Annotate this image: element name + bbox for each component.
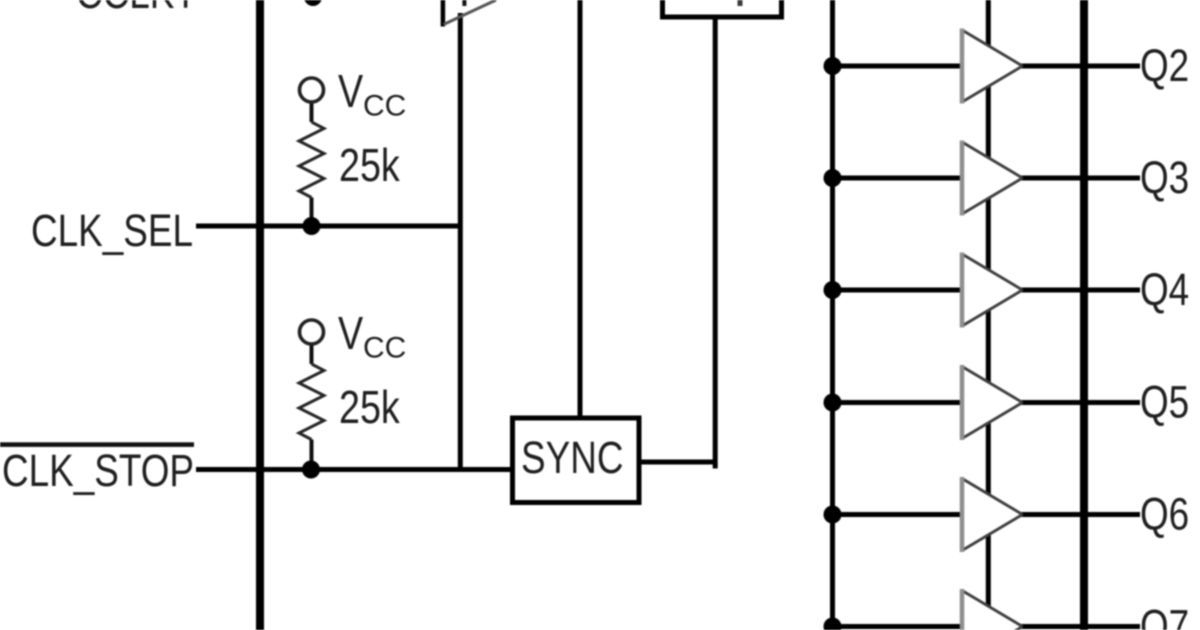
node: bus dot Q3: [824, 169, 842, 187]
buffer Q2: [962, 29, 1023, 104]
svg-text:Q3: Q3: [1140, 153, 1189, 203]
buffer Q5: [962, 365, 1023, 440]
wire: stub above mux slant at top edge: [462, 0, 466, 6]
label VCC (lower): [338, 307, 406, 364]
svg-text:SYNC: SYNC: [521, 433, 623, 483]
svg-text:Q4: Q4: [1140, 265, 1189, 315]
buffer Q4: [962, 253, 1023, 328]
svg-text:Q6: Q6: [1140, 489, 1189, 539]
label CLK_STOP with overline: [0, 442, 194, 496]
SYNC block U2: [513, 418, 640, 503]
wire: Q7 row horizontal: [833, 624, 1141, 629]
wire: vertical from divider box to SYNC output x=715: [713, 15, 718, 469]
node: cropped junction dot top-left: [304, 0, 322, 6]
svg-text:25k: 25k: [339, 381, 401, 432]
svg-text:V: V: [338, 65, 363, 116]
chip boundary left (thick): [256, 0, 264, 630]
buffer Q6: [962, 477, 1023, 552]
node: CLK_STOP junction dot: [302, 461, 320, 479]
svg-text:V: V: [338, 307, 363, 358]
node: bus dot Q4: [824, 281, 842, 299]
wire: vertical into SYNC top x=580: [578, 0, 583, 418]
wire: mux select vertical (CLK_SEL net) x=460: [458, 13, 463, 472]
svg-text:Q5: Q5: [1140, 377, 1189, 427]
resistor R2 25k pull-up: [299, 320, 324, 465]
svg-text:Q7: Q7: [1140, 601, 1189, 630]
svg-text:CLK_STOP: CLK_STOP: [2, 446, 194, 496]
buffer Q7: [962, 589, 1023, 630]
wire: CLK_STOP horizontal into SYNC: [196, 467, 513, 472]
wire: Q3 row horizontal: [833, 176, 1141, 181]
label VCC (upper): [338, 65, 406, 122]
divider box (cropped at top): [663, 0, 782, 17]
wire: Q4 row horizontal: [833, 288, 1141, 293]
svg-text:CLK_SEL: CLK_SEL: [31, 206, 193, 256]
wire: Q6 row horizontal: [833, 512, 1141, 517]
wire: Q5 row horizontal: [833, 400, 1141, 405]
wire: CLK_SEL horizontal: [196, 224, 463, 229]
chip boundary right (thick): [1080, 0, 1088, 630]
node: bus dot Q6: [824, 506, 842, 524]
svg-text:25k: 25k: [339, 139, 401, 190]
wire: Q2 row horizontal: [833, 64, 1141, 69]
svg-text:CC: CC: [363, 332, 406, 365]
node: CLK_SEL junction dot: [303, 217, 321, 235]
buffer Q3: [962, 141, 1023, 216]
node: bus dot Q7: [824, 618, 842, 630]
svg-text:Q2: Q2: [1140, 41, 1189, 91]
wire: SYNC output horizontal: [640, 460, 718, 465]
node: bus dot Q2: [824, 57, 842, 75]
wire: enable line behind buffers x=988: [986, 0, 991, 630]
svg-text:CCLKT: CCLKT: [76, 0, 197, 18]
wire: clock distribution bus x=832: [830, 0, 835, 628]
svg-text:CC: CC: [363, 90, 406, 123]
mux slant (bottom-left corner of mux symbol): [443, 0, 496, 27]
resistor R1 25k pull-up: [299, 78, 324, 222]
node: bus dot Q5: [824, 394, 842, 412]
